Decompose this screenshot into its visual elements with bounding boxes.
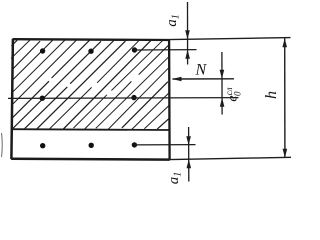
dimension a1 top: line — [187, 2, 189, 65]
concrete section hatching — [11, 39, 169, 129]
dimension h: down arrowhead — [283, 149, 288, 158]
rebar dot bottom-1 — [40, 143, 45, 148]
top reinforcement level extension line — [135, 49, 197, 51]
svg-text:a1: a1 — [164, 14, 182, 27]
dimension e0: down arrowhead — [220, 70, 225, 79]
centroid axis line — [8, 97, 239, 100]
bottom edge extension line — [170, 157, 291, 159]
dimension a1 top: up arrowhead — [185, 50, 190, 59]
top edge extension line — [169, 38, 290, 40]
rebar dot middle-1 — [40, 96, 45, 101]
rebar dot top-3 — [132, 47, 137, 52]
rebar dot top-1 — [40, 48, 45, 53]
dimension e0: line — [221, 52, 223, 115]
rebar dot top-2 — [88, 49, 93, 54]
rebar dot bottom-3 — [132, 142, 137, 147]
dimension a1 top: down arrowhead — [185, 30, 190, 39]
rebar dot middle-2 — [131, 95, 136, 100]
bottom reinforcement level extension line — [134, 144, 195, 146]
boundary line of hatched zone — [12, 128, 170, 131]
dimension e0: up arrowhead — [220, 98, 225, 107]
dimension h: line — [284, 38, 286, 158]
rebar dot bottom-2 — [89, 143, 94, 148]
dimension h: up arrowhead — [282, 38, 287, 47]
svg-text:a1: a1 — [166, 172, 184, 185]
scan artifact line at left margin — [1, 133, 4, 157]
svg-text:N: N — [195, 62, 208, 79]
concrete section outline — [11, 39, 170, 160]
dimension a1 bottom: line — [188, 127, 190, 182]
svg-text:eсл0: eсл0 — [224, 87, 243, 101]
force N: line with left arrowhead — [173, 78, 235, 80]
svg-text:h: h — [263, 91, 280, 99]
dimension a1 bottom: up arrowhead — [187, 159, 192, 168]
dimension a1 bottom: down arrowhead — [186, 136, 191, 145]
